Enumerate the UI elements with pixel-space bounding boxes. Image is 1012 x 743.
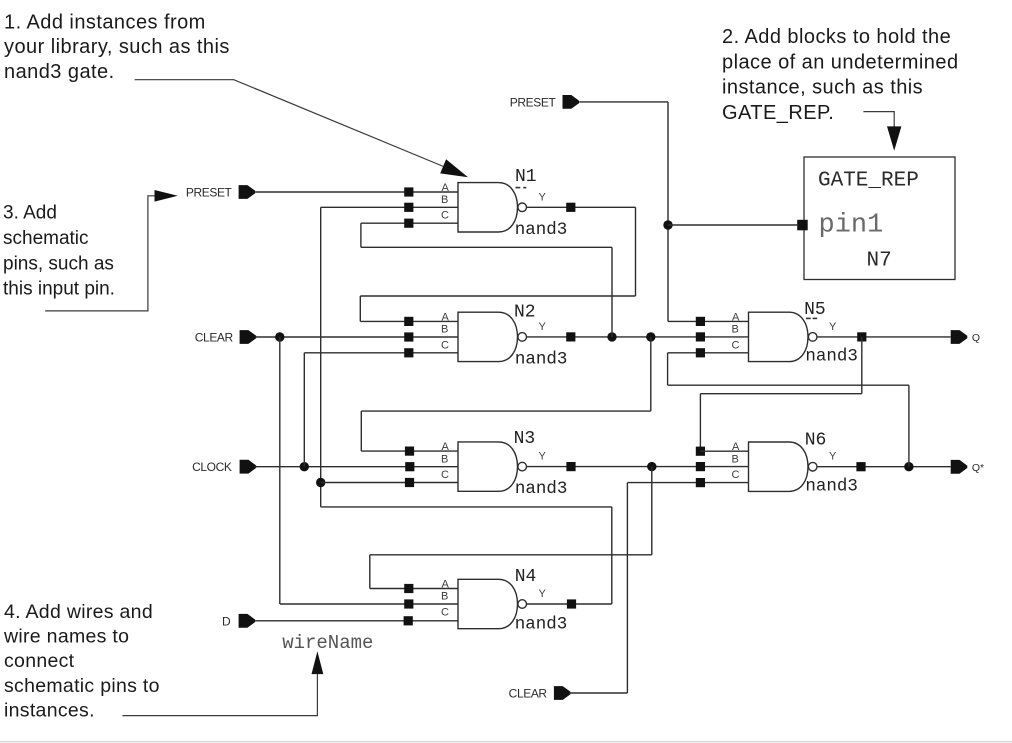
svg-text:Y: Y	[539, 588, 547, 600]
junction dot Q* / N5 C branch	[904, 462, 913, 471]
wire vertical x908.9 up to y385.2	[908, 385, 910, 467]
square N2.B	[404, 332, 413, 341]
wire vertical x635.5 down	[635, 207, 637, 296]
square N6.C	[696, 478, 705, 487]
svg-text:CLEAR: CLEAR	[509, 686, 548, 700]
wire into N4 input A	[370, 588, 458, 590]
wire vertical x279.8 CLEAR down to N4 B row	[279, 337, 281, 604]
svg-text:B: B	[441, 591, 448, 603]
svg-text:B: B	[732, 324, 739, 336]
svg-text:GATE_REP: GATE_REP	[818, 170, 919, 193]
junction dot CLEAR branch	[275, 332, 284, 341]
square N5.A	[696, 317, 705, 326]
wire N6 output to Q* pin	[818, 466, 951, 468]
nand3 gate N3	[441, 441, 547, 491]
wire horizontal y554.8 left	[370, 554, 652, 556]
square N6.Y	[856, 462, 865, 471]
note 3 leader line to PRESET input pin	[45, 190, 178, 311]
wire into N2 input A	[360, 320, 458, 322]
svg-text:GATE_REP.: GATE_REP.	[722, 102, 834, 124]
square N4.C	[404, 616, 413, 625]
svg-text:nand3: nand3	[515, 615, 568, 635]
svg-text:N4: N4	[515, 567, 537, 587]
note 1 leader line to nand3 gate N1	[135, 80, 468, 178]
junction dot N2out / N3 A branch	[646, 332, 655, 341]
note 2 text: add blocks placeholder GATE_REP	[722, 26, 959, 124]
wire PRESET top pin to corner	[579, 101, 668, 103]
output pin Q*	[951, 460, 984, 474]
block U7 GATE_REP outline	[804, 157, 955, 280]
svg-text:C: C	[732, 469, 740, 481]
svg-text:N1: N1	[515, 167, 537, 187]
junction dot N3 C node	[316, 478, 325, 487]
square N1.C	[404, 219, 413, 228]
svg-text:B: B	[441, 194, 448, 206]
nand3 gate N4	[441, 579, 547, 629]
nand3 gate N6	[732, 441, 838, 491]
svg-text:B: B	[732, 453, 739, 465]
input pin CLEAR (bottom)	[509, 686, 571, 700]
wire N5 output to Q pin	[818, 336, 951, 338]
svg-text:C: C	[441, 339, 449, 351]
wire into N2 input C	[304, 352, 458, 354]
svg-text:PRESET: PRESET	[186, 186, 233, 200]
wire vertical x612 up to y247.3	[611, 247, 613, 337]
square N5.C	[696, 348, 705, 357]
nand3 gate N1	[441, 182, 547, 232]
square N6.B	[696, 462, 705, 471]
svg-text:N6: N6	[805, 431, 827, 451]
wire PRESET left pin to N1 A	[255, 191, 458, 193]
svg-text:your library, such as this: your library, such as this	[4, 36, 230, 58]
note 4 leader line to wireName label	[122, 651, 323, 715]
wire N3 output to N6 B	[527, 466, 749, 468]
svg-text:C: C	[732, 339, 740, 351]
svg-text:C: C	[441, 469, 449, 481]
svg-text:1. Add instances from: 1. Add instances from	[4, 11, 206, 33]
wire vertical x360.9 up to N1 C row	[360, 223, 362, 247]
wire CLEAR branch to N4 B	[280, 603, 458, 605]
svg-text:nand3: nand3	[805, 347, 858, 367]
svg-text:B: B	[441, 324, 448, 336]
square N1.A	[404, 187, 413, 196]
wire horizontal y506.9 left	[321, 506, 612, 508]
wire horizontal y393.7 left	[700, 393, 861, 395]
square N6.A	[696, 447, 705, 456]
note 2 leader line to GATE_REP block	[863, 112, 901, 151]
junction dot CLOCK / N2 C branch	[300, 462, 309, 471]
wire vertical x304.3 up to N2 C row	[303, 353, 305, 467]
wire into N6 input C	[627, 482, 748, 484]
wire vertical x320.7 from N1 B down	[320, 207, 322, 507]
wire vertical x668 PRESET down to N5 A row	[667, 102, 669, 322]
square N2.C	[404, 348, 413, 357]
svg-text:nand3: nand3	[515, 479, 568, 499]
svg-text:CLEAR: CLEAR	[195, 330, 234, 344]
input pin CLEAR (left)	[195, 330, 256, 344]
square N4.A	[404, 584, 413, 593]
wire vertical x861.8 down to y393.7	[861, 337, 863, 394]
square N5.Y	[857, 332, 866, 341]
svg-text:pin1: pin1	[819, 211, 884, 241]
junction dot PRESET / pin1 branch	[663, 220, 672, 229]
wire horizontal y296 back left	[360, 295, 635, 297]
svg-text:schematic: schematic	[3, 228, 89, 249]
pin pin1 square of GATE_REP	[797, 220, 808, 231]
svg-text:wireName: wireName	[282, 632, 373, 654]
wire vertical x700.4 down to N6 A row	[699, 394, 701, 452]
svg-text:CLOCK: CLOCK	[192, 460, 232, 474]
svg-text:D: D	[222, 614, 231, 628]
output pin Q	[951, 330, 980, 344]
wire vertical x667.6 up to N5 C row	[667, 353, 669, 385]
nand3 gate N5	[732, 311, 838, 361]
wire N1 output	[527, 206, 636, 208]
junction dot N3out / N4 A branch	[647, 462, 656, 471]
wire vertical x627.4 up to N6 C row	[626, 483, 628, 693]
svg-text:N7: N7	[867, 249, 892, 272]
svg-text:nand3 gate.: nand3 gate.	[4, 61, 115, 83]
wire into N1 input C	[361, 222, 458, 224]
square N1.Y	[566, 203, 575, 212]
wire PRESET branch to GATE_REP pin1	[668, 224, 797, 226]
square N3.Y	[566, 462, 575, 471]
label N5 selection dashes	[806, 317, 817, 319]
wire vertical x369.8 down to N4 A row	[369, 555, 371, 589]
wire horizontal y247.3 left	[361, 246, 612, 248]
square N3.B	[405, 462, 414, 471]
svg-text:Y: Y	[539, 321, 547, 333]
wire into N3 input A	[361, 450, 458, 452]
wire CLEAR pin to N2 B	[255, 336, 458, 338]
svg-text:instances.: instances.	[4, 700, 95, 722]
input pin PRESET (left)	[186, 185, 255, 200]
svg-text:C: C	[441, 606, 449, 618]
wire CLOCK pin to N3 B	[254, 466, 458, 468]
svg-text:B: B	[441, 453, 448, 465]
square N5.B	[696, 332, 705, 341]
square N2.A	[404, 317, 413, 326]
svg-text:Q: Q	[972, 332, 980, 344]
wire vertical x361.3 down to N3 A row	[360, 411, 362, 451]
svg-text:C: C	[441, 210, 449, 222]
note 4 text: add wires and wire names	[3, 601, 160, 722]
note 3 text: add schematic pins	[3, 203, 115, 300]
wire N2 output to N5 B	[527, 336, 749, 338]
svg-text:nand3: nand3	[805, 477, 858, 497]
svg-text:Y: Y	[539, 451, 547, 463]
svg-text:4. Add wires and: 4. Add wires and	[4, 601, 153, 623]
svg-text:Y: Y	[539, 191, 547, 203]
wire horizontal y411.1 left	[361, 410, 651, 412]
wire vertical x611.8 up to y506.9	[611, 507, 613, 604]
input pin CLOCK	[192, 460, 256, 474]
nand3 gate N2	[441, 311, 547, 361]
wire into N3 input C	[321, 482, 458, 484]
wire horizontal y385.2 left	[668, 384, 909, 386]
svg-text:Y: Y	[829, 321, 837, 333]
svg-text:this input pin.: this input pin.	[3, 278, 115, 299]
svg-text:Y: Y	[829, 451, 837, 463]
svg-text:wire names to: wire names to	[3, 626, 129, 648]
svg-text:schematic pins to: schematic pins to	[4, 675, 160, 697]
square N4.B	[404, 599, 413, 608]
input pin D	[222, 614, 255, 629]
svg-text:2. Add blocks to hold the: 2. Add blocks to hold the	[722, 26, 951, 48]
square N3.C	[405, 478, 414, 487]
svg-text:Q*: Q*	[972, 462, 984, 474]
svg-text:nand3: nand3	[515, 350, 568, 370]
svg-text:pins, such as: pins, such as	[3, 253, 114, 274]
wire CLEAR bottom pin to corner	[569, 692, 627, 694]
svg-text:PRESET: PRESET	[510, 95, 557, 109]
wire N4 output	[527, 603, 612, 605]
square N1.B	[404, 203, 413, 212]
wire vertical x650.8 down to y411.1	[650, 337, 652, 411]
svg-text:place of an undetermined: place of an undetermined	[722, 51, 959, 73]
wire vertical x360.3 down to N2 A row	[359, 296, 361, 321]
wire into N5 input A	[668, 320, 749, 322]
note 1 text: add instances from library	[4, 11, 230, 83]
svg-text:N2: N2	[514, 303, 536, 323]
svg-text:3. Add: 3. Add	[3, 203, 57, 224]
svg-text:N3: N3	[514, 429, 536, 449]
wire into N6 input A	[700, 450, 748, 452]
square N4.Y	[567, 599, 576, 608]
svg-text:nand3: nand3	[515, 220, 568, 240]
wire vertical x651.8 down to y554.8	[651, 467, 653, 555]
wire into N1 input B	[321, 206, 458, 208]
square N2.Y	[566, 332, 575, 341]
input pin PRESET (top)	[510, 95, 579, 109]
svg-text:connect: connect	[4, 650, 75, 672]
page footer rule	[0, 741, 1012, 743]
square N3.A	[405, 447, 414, 456]
label N1 selection dashes	[516, 187, 527, 189]
wire D pin to N4 C	[255, 620, 458, 622]
wire into N5 input C	[668, 352, 749, 354]
svg-text:instance, such as this: instance, such as this	[722, 77, 923, 99]
svg-text:N5: N5	[804, 300, 826, 320]
junction dot N2out / N1 C branch	[607, 332, 616, 341]
